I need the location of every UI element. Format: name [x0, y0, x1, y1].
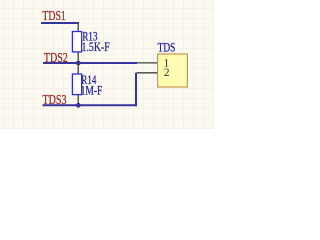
connector TDS pin 1 stub — [137, 62, 158, 64]
svg-text:TDS1: TDS1 — [42, 9, 65, 24]
resistor R14 pin 1 lead — [77, 63, 79, 74]
connector TDS body — [158, 54, 188, 87]
svg-text:2: 2 — [164, 65, 170, 79]
wire TDS1 net (underline + run to R13 pin) — [41, 22, 79, 24]
svg-text:1.5K-F: 1.5K-F — [82, 39, 110, 54]
connector TDS pin 2 stub — [137, 72, 158, 74]
svg-text:TDS3: TDS3 — [43, 93, 67, 108]
junction at TDS3 — [76, 103, 81, 108]
svg-text:1M-F: 1M-F — [81, 82, 103, 97]
svg-text:TDS: TDS — [158, 40, 176, 55]
wire TDS2 net (underline + run to connector pin 1) — [43, 62, 137, 64]
resistor R13 pin 1 lead — [77, 23, 79, 32]
resistor R13 body — [72, 32, 81, 52]
resistor R14 pin 2 lead — [77, 95, 79, 106]
wire vertical from connector pin 2 down to TDS3 net — [135, 73, 137, 107]
resistor R13 pin 2 lead — [77, 52, 79, 63]
wire TDS3 net (underline + run to corner) — [43, 104, 138, 106]
junction at TDS2 — [76, 61, 81, 66]
resistor R14 body — [72, 74, 81, 95]
svg-text:TDS2: TDS2 — [44, 51, 68, 66]
